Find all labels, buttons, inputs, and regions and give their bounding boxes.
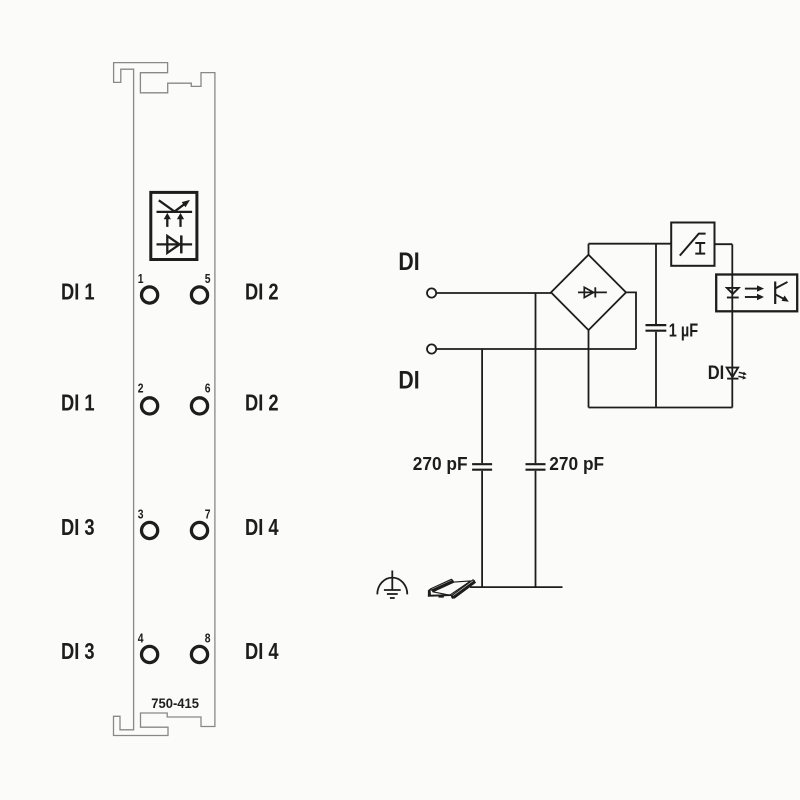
svg-text:750-415: 750-415 [151, 696, 199, 712]
threshold box U1 [671, 223, 714, 266]
optocoupler box U2 [716, 275, 797, 312]
svg-text:7: 7 [205, 506, 211, 522]
wire upper input [437, 292, 551, 294]
svg-text:4: 4 [138, 630, 144, 646]
svg-text:DI 3: DI 3 [61, 639, 95, 665]
svg-text:DI 1: DI 1 [61, 390, 95, 416]
svg-text:270 pF: 270 pF [413, 453, 468, 474]
svg-text:5: 5 [205, 271, 211, 287]
wire bridge bottom down [588, 330, 590, 407]
icon: diode bar [180, 235, 183, 253]
icon: diode triangle [167, 236, 179, 253]
rail channel floor [433, 581, 471, 595]
rail left flange side face [432, 580, 454, 591]
rail front left lip [428, 589, 430, 596]
capacitor C1 1uF wire bottom [655, 332, 657, 408]
wire box to right vertical [715, 243, 733, 245]
DIN rail icon [428, 579, 475, 598]
plus rail [589, 243, 672, 245]
wire lower input [437, 348, 636, 350]
svg-text:DI 2: DI 2 [245, 279, 279, 305]
input terminal upper [427, 288, 436, 297]
icon: AC symbol line [157, 211, 193, 213]
opto phototransistor emitter [775, 294, 785, 299]
icon: V arrow [159, 200, 185, 211]
module outline 750-415 [114, 63, 215, 736]
opto LED bar [727, 297, 739, 299]
icon: diode line [157, 243, 193, 245]
rail right flange top face [452, 580, 474, 597]
capacitor 270pF left plates [472, 463, 492, 465]
svg-text:DI: DI [398, 247, 419, 275]
svg-text:3: 3 [138, 506, 144, 522]
status LED DI triangle [727, 368, 738, 378]
capacitor C1 1uF wire top [655, 244, 657, 324]
terminal 1 [142, 287, 158, 303]
bridge diode triangle [584, 287, 593, 297]
rail front notch tab [439, 595, 444, 597]
rail front bottom band [428, 595, 451, 597]
status LED bar [727, 378, 738, 380]
terminal 5 [191, 287, 207, 303]
svg-text:DI: DI [398, 366, 419, 394]
terminal 6 [191, 398, 207, 414]
wire bridge top to plus rail [588, 244, 590, 255]
svg-text:2: 2 [138, 380, 144, 396]
svg-text:DI 4: DI 4 [245, 639, 279, 665]
icon: small arrow 1 [166, 218, 168, 227]
terminal 7 [191, 522, 207, 538]
input terminal lower [427, 344, 436, 353]
capacitor 270pF left wire bottom [481, 471, 483, 587]
opto LED triangle [727, 288, 739, 294]
opto light arrow 2 [745, 296, 758, 298]
svg-text:8: 8 [205, 630, 211, 646]
threshold I symbol [699, 243, 701, 254]
capacitor 270pF right wire top [535, 293, 537, 463]
earth ground symbol [391, 571, 393, 590]
svg-text:270 pF: 270 pF [549, 453, 604, 474]
rail right flange side face [453, 581, 475, 598]
right vertical wire [731, 244, 733, 407]
icon box [151, 192, 197, 259]
bridge diode bar [594, 287, 596, 297]
bridge rectifier diamond [551, 255, 626, 330]
svg-text:DI 4: DI 4 [245, 515, 279, 541]
rail left flange top face [430, 579, 452, 590]
capacitor 270pF left wire top [481, 349, 483, 463]
svg-text:1: 1 [138, 271, 144, 287]
svg-text:DI 2: DI 2 [245, 390, 279, 416]
opto phototransistor collector [775, 282, 787, 289]
svg-text:DI 3: DI 3 [61, 515, 95, 541]
rail right flange front cut [451, 595, 454, 598]
svg-text:6: 6 [205, 380, 211, 396]
terminal 2 [142, 398, 158, 414]
svg-text:DI: DI [708, 362, 724, 384]
ground rail [470, 586, 563, 588]
capacitor 270pF right plates [526, 463, 546, 465]
bridge diode line [578, 291, 607, 293]
status LED arrow 2 [738, 376, 743, 377]
terminal 4 [142, 646, 158, 662]
opto phototransistor base [774, 282, 776, 305]
svg-text:1 µF: 1 µF [669, 320, 698, 341]
terminal 8 [191, 646, 207, 662]
wire lower to bridge right [626, 292, 636, 349]
opto light arrow 1 [745, 288, 758, 290]
icon: small arrow 2 [179, 218, 181, 227]
threshold ramp symbol [680, 234, 706, 256]
minus rail [589, 407, 733, 409]
svg-text:DI 1: DI 1 [61, 279, 95, 305]
capacitor C1 plates [646, 324, 667, 326]
status LED arrow 1 [739, 372, 744, 373]
capacitor 270pF right wire bottom [535, 471, 537, 587]
terminal 3 [142, 522, 158, 538]
